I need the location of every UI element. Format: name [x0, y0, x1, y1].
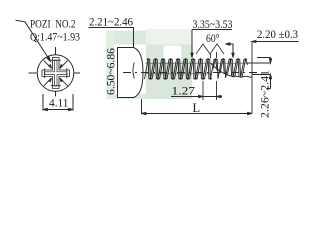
head side view outline — [118, 48, 144, 98]
point taper curve — [211, 64, 252, 78]
taper start dashes — [216, 52, 218, 100]
pozi recess outer cross — [42, 58, 70, 89]
pitch extension left — [202, 81, 204, 100]
svg-text:3.35~3.53: 3.35~3.53 — [193, 19, 233, 31]
screw end face — [251, 42, 253, 114]
crest caps bottom — [149, 78, 211, 79]
dim 1.27 — [171, 96, 222, 98]
pozi recess diagonal tick NE — [60, 60, 68, 68]
end dia extension top — [252, 58, 271, 64]
threads — [144, 59, 252, 80]
head dome center mark — [133, 63, 134, 79]
svg-text:6.50~6.86: 6.50~6.86 — [106, 48, 118, 95]
svg-text:4.11: 4.11 — [49, 98, 69, 110]
leader line from POZI text to recess — [16, 20, 50, 59]
svg-text:2.20 ±0.3: 2.20 ±0.3 — [257, 29, 298, 41]
svg-text:60°: 60° — [206, 33, 220, 45]
crest caps top — [147, 59, 247, 60]
watermark logo — [106, 29, 192, 99]
pozi recess wings — [51, 59, 61, 61]
dim 2.21~2.46 line — [89, 28, 134, 48]
dim 4.11 extension lines — [42, 94, 44, 111]
end dia extension bottom — [252, 75, 271, 89]
root line top at tip — [247, 62, 252, 64]
svg-text:POZI NO.2: POZI NO.2 — [30, 19, 76, 31]
svg-text:2.26~2.41: 2.26~2.41 — [260, 70, 272, 118]
dim L — [142, 99, 253, 114]
head front view circle — [37, 55, 74, 92]
leader to crest at 233 — [226, 44, 234, 57]
dim 3.35~3.53 line — [192, 30, 232, 57]
pozi recess diagonal tick SE — [60, 78, 68, 86]
svg-text:Q:1.47~1.93: Q:1.47~1.93 — [30, 32, 80, 44]
dim 2.20 +-0.3 line — [252, 41, 299, 43]
60 degree flank lines — [196, 44, 224, 59]
dim 4.11 dimension line — [43, 109, 73, 111]
side view centerline — [123, 72, 257, 74]
svg-text:L: L — [193, 101, 201, 115]
node front-view centerline horizontal — [29, 72, 37, 74]
pozi recess diagonal tick SW — [44, 78, 52, 86]
node front-view centerline vertical — [55, 47, 57, 58]
svg-text:1.27: 1.27 — [172, 86, 196, 98]
pozi recess inner cross — [45, 60, 68, 86]
pozi recess diagonal tick NW — [44, 60, 52, 68]
thread root lines — [145, 63, 252, 74]
svg-text:2.21~2.46: 2.21~2.46 — [89, 17, 133, 29]
